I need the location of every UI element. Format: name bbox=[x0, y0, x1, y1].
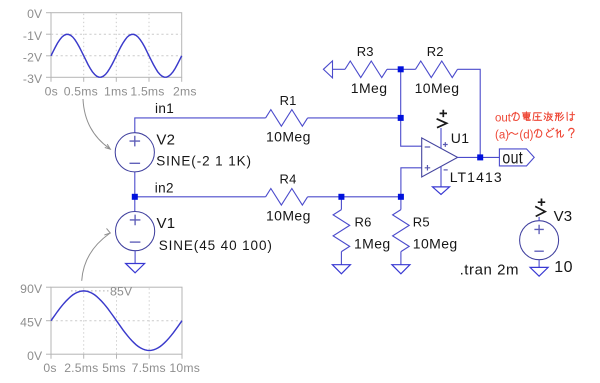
svg-text:out: out bbox=[502, 148, 523, 168]
junction node R6 bbox=[338, 194, 344, 200]
svg-text:5ms: 5ms bbox=[102, 361, 126, 375]
svg-text:R1: R1 bbox=[280, 93, 297, 108]
svg-text:0V: 0V bbox=[27, 7, 43, 21]
voltage source V3 circle bbox=[520, 221, 559, 260]
junction node R3/R2 bbox=[398, 66, 404, 72]
svg-text:R4: R4 bbox=[280, 171, 297, 186]
svg-text:SINE(45 40 100): SINE(45 40 100) bbox=[159, 238, 273, 253]
plot V(in1) sine curve bbox=[51, 34, 182, 77]
red glyph ha bbox=[567, 112, 575, 121]
wire V2 to V1 node in2 bbox=[134, 172, 136, 212]
svg-text:0.5ms: 0.5ms bbox=[64, 85, 98, 99]
ground below R6 bbox=[332, 265, 350, 274]
op-amp inverting input marker bbox=[425, 146, 431, 148]
resistor R1 bbox=[266, 110, 308, 127]
svg-text:10ms: 10ms bbox=[169, 361, 200, 375]
svg-text:90V: 90V bbox=[20, 282, 43, 296]
svg-text:1Meg: 1Meg bbox=[354, 235, 391, 251]
ground below V1 bbox=[126, 264, 145, 273]
svg-text:SINE(-2 1 1K): SINE(-2 1 1K) bbox=[156, 153, 252, 168]
red glyph wave dash bbox=[509, 133, 518, 135]
plot V(in2) frame bbox=[46, 287, 182, 359]
svg-text:10: 10 bbox=[554, 259, 573, 276]
plot V(in2) 85V dotted marker bbox=[71, 290, 109, 292]
V2 minus sign bbox=[130, 162, 141, 164]
wire V3 plus stub bbox=[538, 217, 540, 221]
svg-text:0s: 0s bbox=[45, 85, 58, 99]
svg-text:(d): (d) bbox=[519, 129, 533, 141]
annotation arrow from plot2 to V1 bbox=[82, 228, 111, 280]
red glyph kei bbox=[555, 112, 563, 121]
resistor R5 bbox=[393, 210, 410, 252]
wire node to R5 bbox=[400, 197, 402, 210]
svg-text:1.5ms: 1.5ms bbox=[130, 85, 164, 99]
op-amp V+ supply pin bbox=[440, 128, 442, 148]
annotation arrow from plot1 to V2 bbox=[83, 99, 110, 149]
svg-text:.tran 2m: .tran 2m bbox=[460, 261, 519, 278]
wire V1 to ground bbox=[134, 251, 136, 264]
plot V(in1) frame bbox=[46, 13, 182, 82]
voltage source V1 circle bbox=[116, 212, 155, 251]
wire in1 from V2 top to R1 bbox=[135, 118, 266, 133]
wire R3 to R2 bbox=[387, 68, 416, 70]
red glyph no1 bbox=[512, 112, 520, 120]
svg-text:2ms: 2ms bbox=[173, 85, 197, 99]
resistor R2 bbox=[416, 61, 458, 78]
svg-text:R5: R5 bbox=[413, 215, 430, 230]
voltage source V2 circle bbox=[115, 133, 154, 172]
resistor R6 bbox=[333, 210, 350, 252]
svg-text:0s: 0s bbox=[43, 361, 56, 375]
red glyph do bbox=[546, 128, 554, 137]
svg-text:2.5ms: 2.5ms bbox=[64, 361, 98, 375]
plot V(in1) axis labels bbox=[23, 7, 197, 98]
svg-text:10Meg: 10Meg bbox=[415, 80, 460, 96]
red glyph atsu bbox=[533, 113, 542, 121]
junction node out bbox=[477, 154, 483, 160]
wire op-amp output to out flag bbox=[458, 156, 500, 158]
wire R4 to node bbox=[308, 196, 401, 198]
svg-text:10Meg: 10Meg bbox=[413, 235, 458, 251]
plot V(in2) axis labels bbox=[20, 282, 200, 375]
wire R1 to node rail bbox=[308, 117, 401, 119]
wire rail to op-amp inverting input bbox=[401, 69, 422, 146]
wire in2 to R4 bbox=[135, 196, 266, 198]
svg-text:V1: V1 bbox=[157, 215, 176, 232]
svg-text:R2: R2 bbox=[427, 44, 444, 59]
junction node R1/rail bbox=[398, 115, 404, 121]
svg-text:1ms: 1ms bbox=[104, 85, 128, 99]
red glyph den bbox=[522, 112, 530, 121]
wire V3 to ground bbox=[538, 260, 540, 268]
svg-text:10Meg: 10Meg bbox=[266, 207, 311, 223]
plot V(in2) sine curve bbox=[51, 291, 182, 351]
svg-text:-2V: -2V bbox=[23, 50, 43, 64]
svg-text:0V: 0V bbox=[27, 349, 43, 363]
net flag out bbox=[499, 149, 534, 166]
ground below V3 bbox=[530, 267, 548, 276]
wire R3 left bbox=[333, 68, 346, 70]
op-amp supply minus marker bbox=[444, 169, 448, 171]
red glyph re bbox=[556, 129, 564, 137]
svg-text:U1: U1 bbox=[451, 130, 470, 146]
svg-text:out: out bbox=[495, 113, 512, 125]
V1 plus sign bbox=[130, 215, 141, 226]
junction node R4/R5 bbox=[398, 194, 404, 200]
red glyph nami bbox=[544, 112, 553, 121]
wire R6 to ground bbox=[340, 252, 342, 265]
resistor R3 bbox=[345, 61, 387, 78]
op-amp V+ rail symbol bbox=[437, 119, 447, 128]
svg-text:LT1413: LT1413 bbox=[450, 169, 503, 185]
V1 minus sign bbox=[130, 241, 141, 243]
op-amp V- supply pin bbox=[440, 167, 442, 187]
svg-text:1Meg: 1Meg bbox=[351, 80, 388, 96]
svg-text:in2: in2 bbox=[155, 181, 174, 196]
svg-text:V3: V3 bbox=[554, 208, 573, 225]
op-amp U1 triangle bbox=[422, 138, 458, 177]
junction node in2 bbox=[132, 194, 138, 200]
svg-text:-1V: -1V bbox=[23, 29, 43, 43]
wire node to R6 bbox=[340, 197, 342, 210]
wire R2 to output rail bbox=[458, 69, 481, 157]
svg-text:45V: 45V bbox=[20, 315, 43, 329]
svg-text:7.5ms: 7.5ms bbox=[132, 361, 166, 375]
V3 minus sign bbox=[534, 250, 543, 252]
red glyph fullwidth question bbox=[569, 128, 574, 138]
svg-text:R6: R6 bbox=[355, 215, 372, 230]
svg-text:R3: R3 bbox=[357, 44, 374, 59]
svg-text:-3V: -3V bbox=[23, 72, 43, 86]
arrow terminal left of R3 bbox=[323, 61, 332, 78]
svg-text:V2: V2 bbox=[156, 132, 175, 149]
plot V(in1) gridlines bbox=[51, 14, 182, 78]
V2 plus sign bbox=[130, 136, 141, 147]
ground below R5 bbox=[392, 265, 410, 274]
wire R5 to ground bbox=[400, 252, 402, 265]
svg-text:10Meg: 10Meg bbox=[266, 128, 311, 144]
svg-text:85V: 85V bbox=[110, 285, 133, 299]
svg-text:in1: in1 bbox=[155, 101, 174, 116]
resistor R4 bbox=[266, 189, 308, 206]
op-amp supply plus marker bbox=[443, 142, 448, 147]
ground below op-amp bbox=[433, 187, 450, 195]
V3 V+ rail symbol bbox=[535, 206, 545, 216]
red glyph no2 bbox=[534, 129, 542, 137]
op-amp non-inverting input marker bbox=[425, 165, 431, 171]
V3 plus sign bbox=[534, 225, 543, 234]
plot V(in2) gridlines bbox=[51, 288, 182, 354]
wire node to op-amp non-inverting input bbox=[401, 168, 422, 197]
svg-text:(a): (a) bbox=[495, 129, 509, 141]
